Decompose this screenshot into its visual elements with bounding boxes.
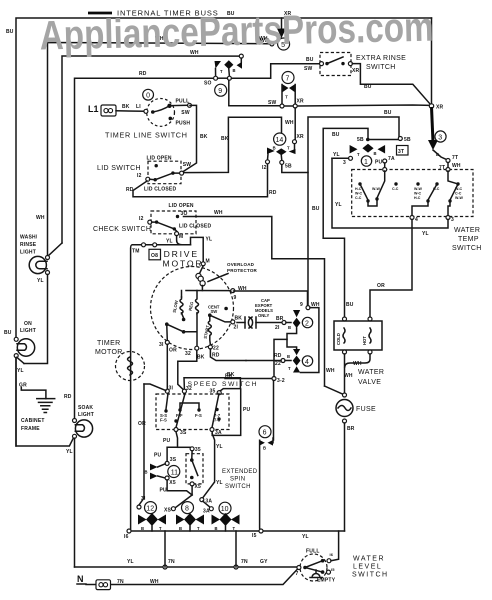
- svg-text:PROTECTOR: PROTECTOR: [227, 268, 258, 273]
- svg-text:XR: XR: [297, 134, 305, 140]
- svg-text:I6: I6: [124, 534, 129, 540]
- svg-text:I5: I5: [331, 567, 335, 572]
- svg-text:7N: 7N: [117, 579, 124, 585]
- svg-text:12: 12: [146, 506, 154, 513]
- bus YL bottom: [124, 529, 345, 540]
- svg-text:WH: WH: [150, 579, 159, 585]
- svg-text:9: 9: [218, 88, 222, 95]
- svg-text:WATER: WATER: [353, 556, 385, 563]
- svg-text:RINSE: RINSE: [20, 242, 37, 248]
- timer buss contact 10: [203, 502, 240, 531]
- svg-text:MOTOR: MOTOR: [95, 349, 123, 356]
- svg-text:LEVEL: LEVEL: [353, 564, 382, 571]
- svg-text:EXTENDED: EXTENDED: [222, 469, 258, 475]
- svg-text:SW: SW: [183, 162, 192, 168]
- svg-text:14: 14: [276, 137, 284, 144]
- svg-text:OVERLOAD: OVERLOAD: [227, 262, 255, 267]
- svg-text:CHECK SWITCH: CHECK SWITCH: [93, 226, 151, 233]
- svg-text:LI: LI: [136, 104, 141, 110]
- svg-text:7: 7: [296, 571, 299, 577]
- svg-text:BU: BU: [364, 84, 372, 90]
- svg-text:B: B: [273, 146, 276, 151]
- svg-text:BK: BK: [122, 104, 130, 110]
- svg-text:32: 32: [185, 351, 191, 357]
- svg-text:SPEED SWITCH: SPEED SWITCH: [188, 381, 259, 388]
- svg-text:7A: 7A: [388, 156, 395, 162]
- svg-text:YL: YL: [206, 237, 213, 243]
- svg-text:BU: BU: [384, 110, 392, 116]
- svg-text:TIMER LINE SWITCH: TIMER LINE SWITCH: [105, 131, 188, 140]
- svg-text:T: T: [357, 152, 360, 157]
- svg-text:YL: YL: [166, 239, 173, 245]
- svg-text:7N: 7N: [168, 559, 175, 565]
- svg-text:LIGHT: LIGHT: [78, 412, 94, 418]
- svg-text:LIGHT: LIGHT: [20, 250, 36, 256]
- svg-text:32: 32: [186, 386, 192, 392]
- svg-text:TIMER: TIMER: [97, 340, 121, 347]
- timer motor: [95, 340, 145, 381]
- svg-text:B: B: [263, 446, 266, 451]
- timer buss contact 9: [204, 54, 320, 105]
- svg-text:22: 22: [213, 346, 219, 352]
- svg-text:SW: SW: [268, 100, 277, 106]
- svg-text:35: 35: [210, 389, 216, 395]
- svg-text:YL: YL: [302, 534, 309, 540]
- svg-text:11: 11: [171, 470, 178, 477]
- svg-text:H-C: H-C: [355, 187, 362, 191]
- extended spin switch: [186, 451, 258, 490]
- svg-text:SWITCH: SWITCH: [352, 572, 389, 579]
- svg-text:H-C: H-C: [414, 196, 421, 200]
- timer buss contact 11: [145, 457, 180, 486]
- water level switch: [296, 531, 389, 584]
- svg-text:PULL: PULL: [176, 98, 190, 104]
- svg-text:2: 2: [305, 321, 309, 328]
- wire TM to timer motor: [131, 236, 213, 531]
- svg-text:YL: YL: [17, 368, 24, 374]
- svg-text:SO: SO: [204, 81, 212, 87]
- svg-text:BU: BU: [306, 57, 314, 63]
- svg-text:XR: XR: [352, 68, 360, 74]
- svg-text:T: T: [288, 366, 291, 371]
- wire RD loop: [64, 71, 214, 420]
- svg-text:BK: BK: [200, 134, 208, 140]
- wash/rinse light: [20, 235, 50, 364]
- svg-text:WH: WH: [353, 361, 362, 367]
- svg-text:3: 3: [343, 160, 346, 166]
- wire outer BU loop: [6, 11, 432, 446]
- svg-text:RD: RD: [64, 394, 72, 400]
- svg-text:W-W: W-W: [414, 187, 423, 191]
- svg-text:OR: OR: [377, 283, 385, 289]
- timer buss contact 6: [259, 426, 273, 531]
- timer buss contact 4: [246, 349, 313, 373]
- svg-text:3S: 3S: [170, 457, 177, 463]
- svg-text:WH: WH: [36, 215, 45, 221]
- svg-text:3-2: 3-2: [277, 378, 285, 384]
- svg-text:3I: 3I: [159, 342, 164, 348]
- svg-text:5B: 5B: [357, 137, 364, 143]
- svg-text:M: M: [206, 259, 210, 265]
- svg-text:BU: BU: [332, 132, 340, 138]
- svg-text:SW: SW: [304, 66, 313, 72]
- legend: internal timer buss: [88, 9, 219, 18]
- svg-text:WH: WH: [285, 120, 294, 126]
- svg-text:HOT: HOT: [362, 336, 367, 345]
- svg-text:0: 0: [146, 93, 150, 100]
- svg-text:5B: 5B: [404, 137, 411, 143]
- svg-text:LID SWITCH: LID SWITCH: [97, 165, 141, 172]
- svg-text:7-5: 7-5: [214, 418, 221, 423]
- timer buss contact 14: [262, 133, 297, 171]
- svg-text:X5: X5: [195, 484, 202, 490]
- extra rinse switch: [304, 53, 406, 76]
- timer buss contact 1: [332, 144, 395, 170]
- svg-text:7: 7: [286, 76, 290, 83]
- overload protector: [196, 262, 258, 286]
- wire WH to fuse: [325, 386, 344, 394]
- svg-text:LID OPEN: LID OPEN: [169, 203, 194, 209]
- wire BK 32 to 35 around speed switch: [184, 374, 258, 392]
- svg-text:W-C: W-C: [355, 192, 363, 196]
- svg-text:4: 4: [305, 359, 309, 366]
- svg-text:RD: RD: [212, 353, 220, 359]
- svg-text:YL: YL: [216, 444, 223, 450]
- svg-text:I: I: [174, 111, 175, 116]
- L1 terminal: [88, 104, 144, 116]
- svg-text:L1: L1: [88, 104, 99, 114]
- svg-text:WH: WH: [344, 373, 353, 379]
- svg-text:W-W: W-W: [372, 187, 381, 191]
- wire 5B chain: [323, 128, 411, 238]
- svg-text:10: 10: [221, 506, 229, 513]
- drive motor circle: [151, 267, 234, 350]
- wire node9 WH: [234, 291, 320, 373]
- svg-text:WH: WH: [214, 210, 223, 216]
- svg-text:TM: TM: [132, 249, 140, 255]
- svg-text:C-C: C-C: [355, 196, 362, 200]
- svg-text:B: B: [233, 68, 236, 73]
- motor terminals: [159, 286, 247, 361]
- svg-text:YL: YL: [333, 152, 340, 158]
- water temp switch: [352, 168, 482, 253]
- timer buss contact 3 (thick buss): [428, 107, 461, 171]
- on light: [4, 321, 73, 446]
- svg-text:4: 4: [415, 217, 418, 223]
- svg-text:FULL: FULL: [306, 549, 320, 555]
- svg-text:YL: YL: [127, 559, 134, 565]
- svg-text:LID CLOSED: LID CLOSED: [179, 224, 211, 230]
- svg-text:BR: BR: [347, 426, 355, 432]
- wire 3I motor to speed switch: [166, 344, 168, 389]
- soak light: [66, 405, 94, 567]
- svg-text:PU: PU: [154, 453, 162, 459]
- svg-text:RD: RD: [139, 71, 147, 77]
- svg-text:F-S: F-S: [195, 413, 202, 418]
- svg-text:COLD: COLD: [336, 333, 341, 345]
- wire BK from timer line switch: [182, 105, 282, 172]
- svg-text:C-C: C-C: [455, 192, 462, 196]
- svg-text:EMPTY: EMPTY: [317, 578, 336, 584]
- svg-text:SPIN: SPIN: [230, 477, 245, 483]
- svg-text:6: 6: [263, 430, 267, 437]
- svg-text:PU: PU: [163, 438, 171, 444]
- svg-text:X5: X5: [169, 480, 176, 486]
- svg-text:ON: ON: [24, 321, 32, 327]
- wire 3A around speed switch bottom: [212, 389, 241, 435]
- svg-text:I2: I2: [139, 216, 144, 222]
- water valve: [326, 317, 384, 393]
- svg-text:I6: I6: [330, 552, 334, 557]
- drive motor label: [149, 249, 203, 269]
- svg-text:SW: SW: [181, 110, 190, 116]
- svg-text:ONLY: ONLY: [258, 313, 269, 318]
- svg-text:BU: BU: [6, 29, 14, 35]
- svg-text:B: B: [145, 470, 148, 475]
- svg-text:TEMP: TEMP: [458, 236, 479, 243]
- svg-text:9: 9: [300, 302, 303, 308]
- svg-text:YL: YL: [66, 449, 73, 455]
- svg-text:3A: 3A: [215, 430, 222, 436]
- ground cabinet frame: [19, 383, 55, 433]
- svg-text:SW: SW: [211, 309, 218, 314]
- svg-text:XR: XR: [297, 99, 305, 105]
- svg-text:YL: YL: [216, 480, 223, 486]
- 3T box: [397, 146, 409, 156]
- svg-text:PU: PU: [243, 407, 251, 413]
- svg-text:BU: BU: [346, 302, 354, 308]
- svg-text:SWITCH: SWITCH: [452, 245, 482, 252]
- svg-text:T: T: [287, 146, 290, 151]
- timer buss contact 5: [260, 18, 290, 50]
- N neutral line: [77, 569, 298, 590]
- svg-text:XR: XR: [436, 105, 444, 111]
- check switch: [93, 203, 325, 386]
- svg-text:N: N: [77, 574, 84, 584]
- svg-text:WATER: WATER: [358, 369, 384, 376]
- svg-text:WASH/: WASH/: [20, 235, 38, 241]
- fuse: [336, 393, 376, 531]
- svg-text:SWITCH: SWITCH: [366, 64, 396, 71]
- wire 2nd WH loop: [48, 36, 270, 258]
- svg-text:DRIVE: DRIVE: [164, 249, 199, 259]
- svg-text:SOAK: SOAK: [78, 405, 93, 411]
- svg-text:SWITCH: SWITCH: [225, 484, 251, 490]
- svg-text:EXTRA RINSE: EXTRA RINSE: [356, 55, 406, 62]
- timer buss contact 2: [286, 310, 313, 349]
- wire YL to motor: [201, 259, 210, 266]
- svg-text:LID CLOSED: LID CLOSED: [144, 187, 176, 193]
- svg-text:W-C: W-C: [414, 192, 422, 196]
- svg-text:RD: RD: [274, 353, 282, 359]
- svg-text:35: 35: [195, 447, 201, 453]
- wire PU speed switch 3S to extended spin: [154, 432, 201, 462]
- wire BU to valve: [312, 206, 354, 319]
- svg-text:BK: BK: [197, 355, 205, 361]
- svg-text:AppliancePartsPros.com: AppliancePartsPros.com: [39, 4, 434, 59]
- svg-text:FRAME: FRAME: [21, 426, 40, 432]
- wire 5B to cluster 1: [282, 110, 399, 308]
- svg-text:BK: BK: [221, 136, 229, 142]
- wire BU extra rinse to right edge: [352, 64, 430, 105]
- wire OR temp switch to valve: [370, 220, 412, 320]
- svg-text:VALVE: VALVE: [358, 379, 381, 386]
- capacitor (export models): [237, 298, 286, 331]
- svg-text:LIGHT: LIGHT: [20, 328, 36, 334]
- svg-text:5B: 5B: [285, 164, 292, 170]
- svg-text:2I: 2I: [234, 325, 239, 331]
- svg-text:BU: BU: [312, 206, 320, 212]
- svg-text:I2: I2: [262, 165, 267, 171]
- svg-text:BK: BK: [235, 316, 243, 322]
- svg-text:I2: I2: [137, 173, 142, 179]
- svg-text:WH: WH: [326, 368, 335, 374]
- svg-text:PUSH: PUSH: [176, 121, 191, 127]
- svg-text:YL: YL: [422, 231, 429, 237]
- svg-text:F-S: F-S: [160, 418, 167, 423]
- svg-text:BK: BK: [225, 374, 233, 380]
- svg-text:3: 3: [438, 135, 442, 142]
- svg-text:8: 8: [185, 506, 189, 513]
- timer line switch: [105, 89, 192, 139]
- wire YL temp switch: [332, 158, 448, 237]
- wire 3rd WH loop: [36, 50, 239, 257]
- timer buss contact 7: [268, 72, 304, 141]
- bus 7N bottom: [75, 531, 299, 569]
- svg-text:3: 3: [451, 217, 454, 223]
- svg-text:CABINET: CABINET: [21, 418, 45, 424]
- wire BK 3-2 node: [225, 339, 287, 440]
- svg-text:B: B: [287, 354, 290, 359]
- svg-text:XS: XS: [164, 508, 172, 514]
- svg-text:3I: 3I: [169, 386, 174, 392]
- svg-text:2I: 2I: [275, 325, 280, 331]
- svg-text:9: 9: [234, 295, 237, 301]
- svg-text:B: B: [374, 151, 377, 156]
- svg-text:GY: GY: [260, 559, 268, 565]
- svg-text:T: T: [220, 69, 223, 74]
- svg-text:WH: WH: [452, 163, 461, 169]
- svg-text:OR: OR: [138, 421, 146, 427]
- svg-text:7T: 7T: [452, 155, 458, 161]
- svg-text:RD: RD: [269, 190, 277, 196]
- wire PU to contact 8: [160, 480, 193, 508]
- svg-text:M: M: [179, 234, 183, 240]
- lid switch: [97, 156, 277, 197]
- wire YL 3A down: [200, 434, 223, 508]
- timer buss contact 12: [137, 384, 166, 531]
- svg-text:W-W: W-W: [455, 196, 464, 200]
- svg-text:GR: GR: [19, 383, 27, 389]
- svg-text:3A: 3A: [203, 509, 210, 515]
- svg-text:I5: I5: [252, 533, 257, 539]
- wire BK 32 motor to speed switch: [178, 350, 197, 390]
- svg-text:OR: OR: [169, 348, 177, 354]
- svg-text:B: B: [288, 325, 291, 330]
- svg-text:FUSE: FUSE: [356, 406, 376, 413]
- svg-text:3S: 3S: [180, 430, 187, 436]
- svg-text:C-C: C-C: [392, 187, 399, 191]
- wire SW long: [229, 99, 444, 111]
- svg-text:BU: BU: [4, 330, 12, 336]
- svg-text:22: 22: [275, 361, 281, 367]
- svg-text:O8: O8: [151, 253, 158, 259]
- svg-text:WATER: WATER: [454, 227, 480, 234]
- svg-text:1: 1: [364, 159, 368, 166]
- speed switch dashed: [156, 386, 251, 445]
- svg-text:T: T: [285, 95, 288, 100]
- svg-text:PU: PU: [160, 488, 168, 494]
- svg-text:PU: PU: [375, 160, 383, 166]
- svg-text:YL: YL: [335, 202, 342, 208]
- svg-text:YL: YL: [37, 278, 44, 284]
- svg-text:7N: 7N: [241, 559, 248, 565]
- svg-text:3T: 3T: [398, 149, 404, 155]
- timer buss contact 8: [164, 502, 204, 531]
